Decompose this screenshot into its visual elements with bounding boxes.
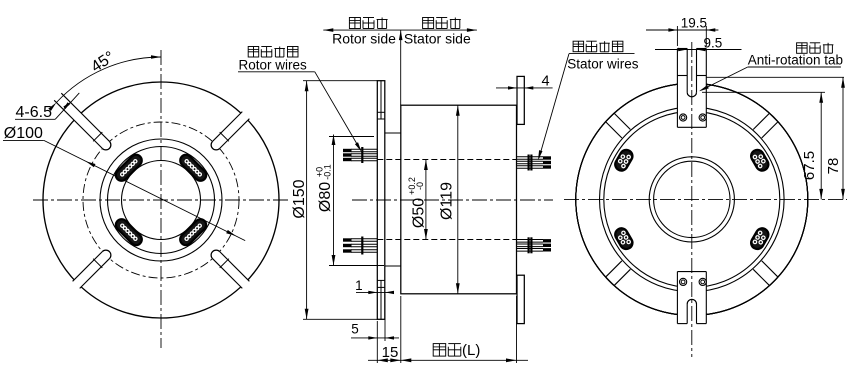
right view: body outer circle — [600, 107, 785, 292]
dim 78 extension line — [706, 76, 844, 78]
svg-text:19.5: 19.5 — [681, 16, 707, 31]
svg-text:67.5: 67.5 — [801, 151, 818, 180]
dim 1 line — [356, 291, 390, 293]
D150 extension lines — [303, 80, 377, 82]
anti-rotation tab bottom — [677, 272, 706, 324]
D50 dimension line — [425, 160, 427, 240]
anti-rotation tab top — [677, 49, 706, 128]
mounting slot at 45 deg (NE) — [213, 110, 252, 149]
dim 9.5 line — [655, 49, 742, 51]
label stator wires (chinese) — [573, 41, 584, 52]
flange rim step lines — [377, 111, 385, 113]
D80 dimension line — [333, 135, 335, 266]
svg-text:1: 1 — [355, 278, 363, 293]
rotor flange arcs seen behind (D150) — [576, 83, 808, 315]
D119 dimension line — [457, 105, 459, 294]
svg-text:4-6.5: 4-6.5 — [16, 104, 53, 121]
dim 19.5 line — [646, 29, 718, 31]
svg-text:Rotor wires: Rotor wires — [239, 57, 308, 72]
label 4-6.5 underline — [15, 118, 55, 120]
slot width dimension line with arrows — [55, 93, 79, 119]
label rotor wires (chinese) — [248, 47, 259, 58]
svg-text:4: 4 — [541, 74, 549, 90]
stator wires leader — [539, 54, 569, 158]
svg-text:Stator wires: Stator wires — [567, 56, 639, 71]
anti-rotation leader — [701, 67, 748, 91]
right view: horizontal centerline — [564, 198, 847, 200]
rotor wire bundle connector 1 (left view) — [178, 152, 209, 183]
mounting slot 4-6.5 at 135 deg (NW) with extension lines — [71, 110, 110, 149]
bore hidden line lower — [377, 239, 516, 241]
anti-rotation underline — [748, 66, 841, 68]
stator wire bundle connector at 150 deg (right view) — [613, 148, 635, 173]
mating face divider vertical line — [400, 30, 402, 105]
stator body (section) — [401, 105, 517, 294]
flange slot edge lines at 315 deg (right view) — [753, 269, 769, 285]
svg-text:-0: -0 — [415, 182, 425, 190]
body extension lines bottom — [400, 296, 402, 363]
stator wires divider line — [569, 53, 635, 55]
svg-text:Ø100: Ø100 — [4, 125, 43, 142]
mounting slot at 225 deg (SW) — [71, 252, 110, 291]
svg-text:5: 5 — [351, 322, 359, 337]
rotor wire bundle connector 2 (left view) — [113, 152, 144, 183]
right view: bore outer circle — [649, 157, 734, 242]
D80 extension lines — [329, 136, 374, 138]
rotor wires underline — [238, 71, 315, 73]
svg-text:15: 15 — [382, 344, 399, 361]
flange slot edge lines at 135 deg (right view) — [614, 113, 630, 129]
length L text — [433, 344, 446, 357]
dim 15 arrows — [377, 358, 388, 362]
dim 78 line — [842, 77, 844, 199]
label anti-rotation tab (chinese) — [797, 43, 808, 54]
label stator side (chinese) — [423, 18, 434, 29]
dim 4 line — [496, 87, 553, 89]
45 degree angle dimension arc — [56, 57, 161, 103]
left view: vertical centerline — [160, 50, 162, 348]
rotor flange plate (section) — [377, 81, 385, 320]
right view: bore circle — [654, 161, 730, 237]
O100 underline — [3, 140, 44, 142]
O100 dimension line — [44, 140, 245, 240]
rotor wires exit upper (section) — [351, 148, 377, 150]
middle: rotor/stator side divider line with arrows — [323, 29, 477, 31]
dim 5 line — [351, 337, 399, 339]
D150 dimension line — [306, 81, 308, 320]
left view: boss circle — [100, 139, 222, 261]
dim 19.5 extension lines — [676, 26, 678, 46]
mounting slot at 315 deg (SE) — [213, 252, 252, 291]
svg-text:78: 78 — [825, 158, 842, 175]
svg-text:Stator side: Stator side — [404, 30, 471, 46]
stator wire bundle connector at 330 deg (right view) — [749, 226, 771, 251]
flange slot edge lines at 45 deg (right view) — [762, 122, 778, 138]
dim 5/15 extension lines — [376, 321, 378, 363]
dim 67.5 extension line — [702, 91, 825, 93]
right view: vertical centerline — [691, 42, 693, 357]
label rotor side (chinese) — [349, 18, 360, 29]
left view: boss inner circle — [108, 147, 215, 254]
svg-text:Ø150: Ø150 — [291, 179, 308, 218]
left view: bolt circle D100 (dash-dot) — [83, 122, 239, 278]
svg-text:9.5: 9.5 — [704, 36, 723, 51]
svg-text:(L): (L) — [462, 342, 480, 359]
svg-text:-0.1: -0.1 — [323, 164, 333, 180]
middle view centerline — [352, 199, 553, 201]
left view: flange outer circle D150 — [43, 82, 279, 318]
flange boss cylinder D80 — [385, 132, 401, 134]
stator end plate upper ear — [517, 76, 524, 124]
length L arrows — [401, 358, 412, 362]
svg-text:Ø50: Ø50 — [411, 198, 428, 228]
bore hidden line upper — [377, 159, 516, 161]
rotor wire bundle connector 3 (left view) — [113, 217, 144, 248]
stator wires exit upper (section) — [517, 156, 544, 158]
stator end plate lower ear — [517, 275, 524, 323]
flange slot edge lines at 225 deg (right view) — [606, 261, 622, 277]
bottom dimension line — [368, 359, 528, 361]
left view: horizontal centerline — [33, 199, 290, 201]
svg-text:Ø80: Ø80 — [317, 182, 334, 212]
left view: center bore D50 — [122, 161, 201, 240]
svg-text:Ø119: Ø119 — [439, 182, 456, 220]
svg-text:Rotor side: Rotor side — [332, 30, 396, 46]
stator wire bundle connector at 210 deg (right view) — [613, 226, 635, 251]
svg-text:Anti-rotation tab: Anti-rotation tab — [748, 53, 843, 68]
rotor wire bundle connector 4 (left view) — [178, 217, 209, 248]
right view: body inner circle — [604, 111, 780, 287]
rotor wires exit lower (section) — [351, 238, 377, 240]
rotor wires leader — [315, 72, 361, 150]
stator wire bundle connector at 30 deg (right view) — [749, 148, 771, 173]
dim 67.5 line — [820, 92, 822, 199]
stator wires exit lower (section) — [517, 239, 544, 241]
